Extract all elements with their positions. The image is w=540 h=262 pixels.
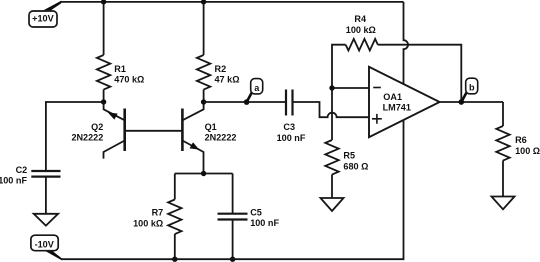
svg-text:LM741: LM741 (383, 103, 411, 113)
wire R1 bottom lead (103, 90, 105, 103)
node junction Q1 emitter (201, 171, 206, 176)
node b label (466, 78, 478, 94)
wire node to C2 (46, 102, 104, 171)
svg-text:100 nF: 100 nF (250, 218, 279, 228)
label R1 value (114, 64, 144, 85)
wire op-amp V+ from top rail (404, 2, 409, 85)
ground under R6 (492, 197, 515, 210)
ground under C2 (34, 214, 58, 226)
wire R4 left lead down to minus node (332, 45, 346, 88)
wire C5 top lead (232, 174, 234, 214)
+10V label (29, 11, 57, 27)
label C5 value (250, 207, 279, 228)
node junction R7 bottom rail (172, 257, 177, 262)
node junction C5 bottom rail (230, 257, 235, 262)
svg-text:b: b (469, 83, 475, 93)
wire bottom -10V rail (61, 120, 404, 259)
svg-text:C5: C5 (250, 207, 262, 217)
svg-text:R7: R7 (152, 208, 164, 218)
node a label (251, 79, 263, 94)
wire C5 bottom lead (232, 220, 234, 260)
label Q1 (205, 122, 237, 143)
node junction top rail R1 (101, 0, 106, 5)
resistor R7 (168, 200, 181, 235)
svg-text:100 kΩ: 100 kΩ (346, 25, 376, 35)
+10V flag (44, 1, 62, 11)
node b pointer (461, 93, 466, 103)
svg-text:R2: R2 (215, 64, 227, 74)
node junction R2 Q1 (201, 99, 206, 104)
resistor R1 (97, 55, 110, 90)
svg-text:47 kΩ: 47 kΩ (215, 75, 240, 85)
label C2 value (0, 165, 27, 186)
capacitor C5 (218, 214, 248, 220)
svg-text:470 kΩ: 470 kΩ (114, 75, 144, 85)
wire R5 bottom lead (331, 175, 333, 199)
ground under R5 (321, 198, 344, 211)
wire R7 top lead (174, 174, 176, 200)
wire minus input (332, 87, 369, 89)
wire C2 to ground (45, 177, 47, 214)
resistor R6 (496, 126, 509, 161)
node junction R1 Q2 (101, 99, 106, 104)
svg-text:Q2: Q2 (91, 122, 103, 132)
-10V flag (45, 251, 62, 261)
svg-text:OA1: OA1 (383, 92, 402, 102)
node junction top rail R2 (201, 0, 206, 5)
wire R1 top lead (103, 2, 105, 55)
wire op-amp output (440, 101, 503, 103)
label R4 value (346, 14, 376, 35)
wire R7 bottom lead (174, 234, 176, 259)
svg-text:Q1: Q1 (205, 122, 217, 132)
svg-text:100 Ω: 100 Ω (515, 146, 540, 156)
svg-text:+10V: +10V (32, 14, 54, 24)
wire R2 bottom lead (203, 90, 205, 103)
transistor Q2 (104, 102, 125, 159)
svg-text:C3: C3 (283, 122, 295, 132)
svg-text:R6: R6 (515, 135, 527, 145)
resistor R4 (346, 39, 378, 51)
wire R6 top lead (502, 102, 504, 126)
wire R6 bottom lead (502, 161, 504, 197)
wire R2 top lead (203, 2, 205, 55)
svg-text:100 nF: 100 nF (0, 176, 27, 186)
node junction minus input (329, 85, 334, 90)
label R6 value (515, 135, 540, 156)
node junction output feedback (459, 99, 465, 105)
svg-text:2N2222: 2N2222 (205, 132, 237, 142)
svg-text:100 kΩ: 100 kΩ (133, 219, 163, 229)
wire base Q2 to base Q1 (125, 130, 183, 132)
label R2 value (215, 64, 240, 85)
wire Q1 emitter node horizontal (175, 173, 233, 175)
transistor Q1 (182, 102, 203, 174)
op-amp U1 OA1 LM741 (369, 67, 440, 137)
svg-text:R4: R4 (354, 14, 367, 24)
wire R4 right lead with hop to feedback corner (378, 45, 461, 102)
wire C3 to op-amp plus input with hop (293, 102, 370, 117)
node a pointer (244, 93, 252, 105)
svg-text:100 nF: 100 nF (277, 133, 306, 143)
label C3 value (277, 122, 306, 143)
resistor R2 (197, 55, 210, 90)
svg-text:R1: R1 (114, 64, 126, 74)
wire Q1 collector to node a and C3 (204, 101, 286, 103)
resistor R5 (325, 140, 338, 175)
label R5 value (343, 150, 368, 171)
capacitor C3 (286, 90, 293, 116)
svg-text:2N2222: 2N2222 (71, 132, 103, 142)
svg-text:C2: C2 (16, 165, 28, 175)
svg-text:R5: R5 (343, 150, 355, 160)
svg-text:-10V: -10V (35, 239, 54, 249)
svg-text:680 Ω: 680 Ω (343, 161, 368, 171)
wire R5 top lead (331, 88, 333, 140)
label R7 value (133, 208, 163, 229)
capacitor C2 (31, 171, 60, 177)
wire top +10V rail (60, 1, 403, 3)
label Q2 (71, 122, 103, 143)
-10V label (31, 235, 58, 251)
